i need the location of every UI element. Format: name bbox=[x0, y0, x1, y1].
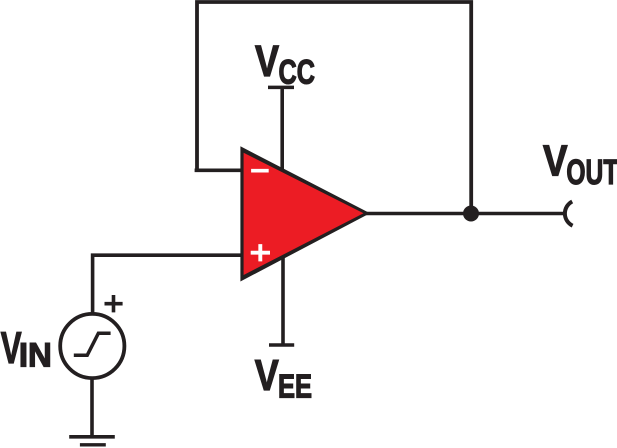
svg-text:CC: CC bbox=[279, 53, 315, 91]
label VEE bbox=[255, 352, 312, 405]
svg-text:IN: IN bbox=[19, 337, 52, 375]
source VIN plus polarity bbox=[105, 295, 123, 312]
svg-text:V: V bbox=[255, 352, 279, 400]
wire feedback to inverting input bbox=[195, 169, 243, 173]
wire VIN source to ground bbox=[90, 380, 94, 437]
terminal VOUT open arc bbox=[565, 202, 573, 226]
VCC rail bar bbox=[268, 86, 294, 90]
label VCC bbox=[255, 37, 315, 91]
svg-text:EE: EE bbox=[278, 368, 312, 405]
svg-text:OUT: OUT bbox=[566, 153, 617, 192]
label VOUT bbox=[543, 137, 617, 192]
source VIN ramp symbol bbox=[74, 333, 111, 355]
op-amp U1 plus input label bbox=[251, 244, 270, 261]
wire VCC stub bbox=[280, 87, 284, 172]
VEE rail bar bbox=[269, 343, 294, 347]
wire feedback top bbox=[197, 2, 471, 214]
ground bbox=[69, 435, 115, 439]
wire output bbox=[362, 212, 564, 216]
wire VEE stub bbox=[281, 255, 285, 345]
svg-text:V: V bbox=[543, 137, 568, 185]
label VIN bbox=[1, 324, 52, 375]
node output junction bbox=[463, 206, 479, 222]
op-amp U1 minus input label bbox=[251, 169, 269, 173]
wire VIN to non-inverting input bbox=[93, 255, 243, 312]
svg-text:V: V bbox=[255, 37, 279, 86]
op-amp U1 bbox=[240, 146, 370, 281]
source VIN circle bbox=[60, 314, 124, 378]
